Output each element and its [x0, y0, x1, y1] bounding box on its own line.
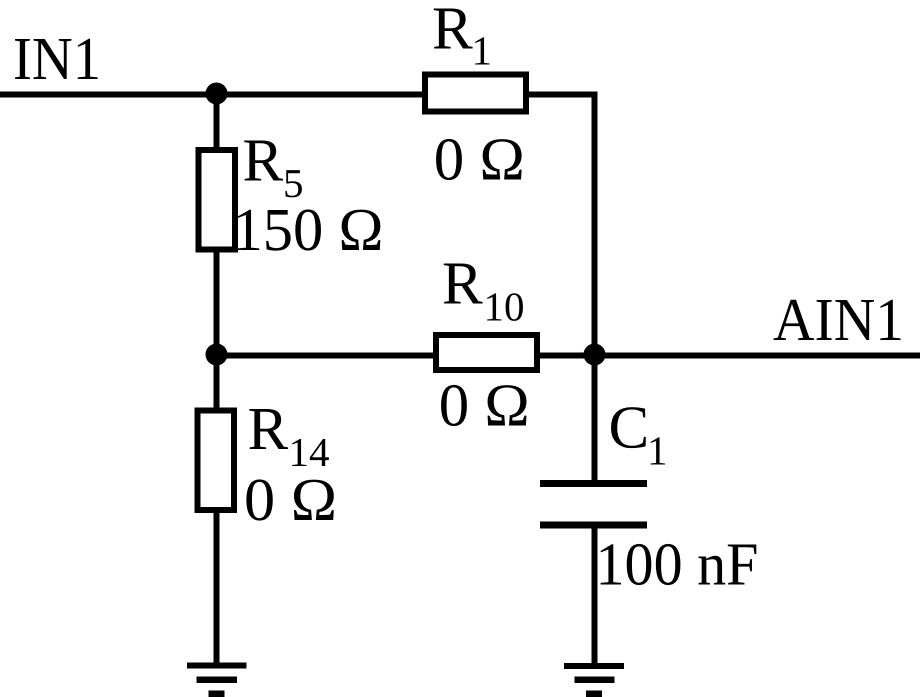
svg-text:150 Ω: 150 Ω — [233, 197, 384, 264]
svg-text:R: R — [248, 396, 289, 463]
svg-text:10: 10 — [484, 283, 525, 329]
svg-text:0 Ω: 0 Ω — [244, 467, 337, 534]
svg-text:R: R — [243, 128, 284, 195]
svg-text:5: 5 — [283, 160, 304, 206]
svg-text:AIN1: AIN1 — [773, 287, 904, 354]
svg-text:IN1: IN1 — [13, 26, 101, 93]
svg-text:0 Ω: 0 Ω — [439, 373, 530, 440]
svg-text:1: 1 — [647, 428, 668, 474]
svg-text:1: 1 — [472, 28, 493, 74]
svg-text:14: 14 — [289, 429, 330, 475]
svg-text:R: R — [432, 0, 473, 63]
svg-text:C: C — [609, 395, 650, 462]
svg-text:100 nF: 100 nF — [596, 532, 759, 599]
svg-text:0 Ω: 0 Ω — [434, 127, 525, 194]
svg-text:R: R — [442, 251, 483, 318]
